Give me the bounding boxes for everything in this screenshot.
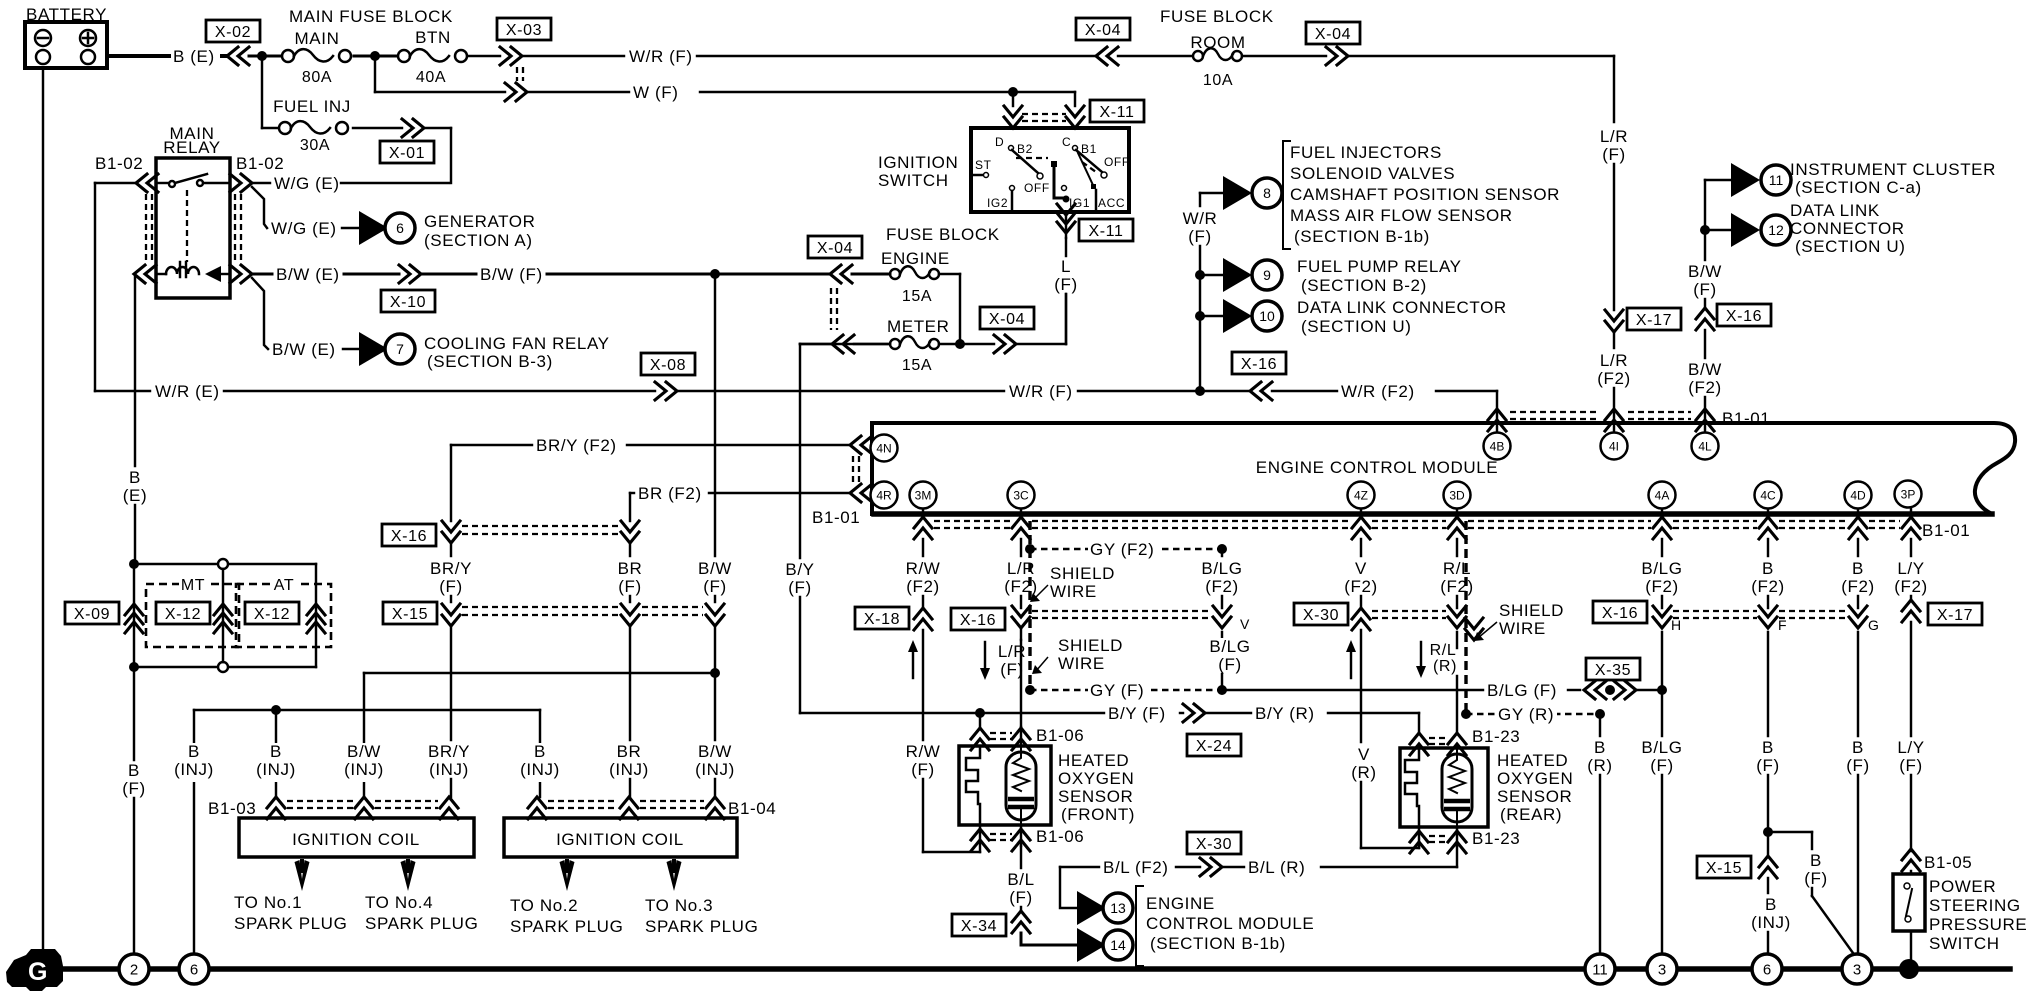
svg-text:X-30: X-30: [1303, 607, 1339, 624]
svg-text:CONNECTOR: CONNECTOR: [1790, 219, 1905, 238]
svg-text:WIRE: WIRE: [1050, 582, 1097, 601]
svg-text:B1-06: B1-06: [1036, 726, 1084, 745]
svg-text:AT: AT: [274, 577, 294, 594]
connector X-18 box: [855, 607, 909, 629]
wire to instrument cluster: [1705, 179, 1731, 181]
node junction W/R distribution: [1195, 386, 1205, 396]
wire GY (R) dashed: [1466, 705, 1597, 727]
shield wire rear: [1464, 521, 1467, 714]
label FUEL INJ: [273, 97, 351, 116]
connector X-09 box: [65, 602, 119, 624]
svg-text:SWITCH: SWITCH: [1929, 934, 2000, 953]
svg-text:B/W (E): B/W (E): [272, 340, 336, 359]
connector X-12 chevron MT: [214, 604, 232, 633]
svg-text:(SECTION B-3): (SECTION B-3): [427, 352, 553, 371]
wire B (INJ) coil1 drop: [275, 710, 277, 797]
node junction B/LG column: [1657, 685, 1667, 695]
node junction DLC branch: [1700, 225, 1710, 235]
connector B1-04 chevron 2: [620, 797, 638, 819]
connector X-16 dashed right: [1673, 611, 1847, 618]
svg-text:(F): (F): [1899, 756, 1923, 775]
ECM pin 4Z: [1348, 482, 1375, 509]
label SHIELD WIRE front lower: [1032, 636, 1123, 674]
ECM pin 4I: [1601, 433, 1628, 460]
svg-text:W/R (F2): W/R (F2): [1341, 382, 1415, 401]
label TO No.2 SPARK PLUG: [510, 896, 623, 936]
wire PS switch to bus: [1910, 931, 1912, 961]
wire B/W (E) to cooling fan relay: [252, 278, 359, 362]
svg-text:6: 6: [1763, 962, 1771, 979]
connector X-15 chevron right: [1759, 856, 1777, 878]
svg-text:W/R (F): W/R (F): [1009, 382, 1073, 401]
svg-text:D: D: [995, 135, 1004, 149]
svg-text:SWITCH: SWITCH: [878, 171, 949, 190]
coil T1 IGNITION COIL box: [239, 818, 474, 857]
wire BR (F2) horizontal: [630, 484, 850, 506]
svg-text:B: B: [1852, 738, 1864, 757]
svg-text:(INJ): (INJ): [344, 760, 384, 779]
svg-text:W/R (F): W/R (F): [629, 47, 693, 66]
wire W/G (E) to X-01: [252, 174, 449, 196]
connector X-18 chevron: [914, 608, 932, 630]
label INSTRUMENT CLUSTER: [1790, 160, 1996, 197]
wire BR column: [615, 493, 646, 797]
wire meter fuse to L(F): [939, 294, 1066, 344]
wire label B (INJ) coil1: [251, 742, 301, 782]
wire room fuse out: [1242, 55, 1326, 57]
connector B1-23 chevron bottom right: [1448, 827, 1466, 853]
svg-text:B/W (E): B/W (E): [276, 265, 340, 284]
svg-text:W/R: W/R: [1183, 209, 1218, 228]
spark plug arrow 1: [295, 859, 310, 891]
connector X-17 box: [1627, 308, 1681, 330]
off-page ref 9 FUEL PUMP RELAY: [1223, 258, 1282, 292]
label B1-23 bottom: [1472, 829, 1520, 848]
connector B1-03 chevron 2: [355, 797, 373, 819]
switch SW1 IGNITION SWITCH box: [971, 128, 1129, 212]
wire B/L (R) riser to rear sensor: [1456, 846, 1458, 867]
HO2S rear heater element: [1405, 750, 1419, 827]
svg-text:13: 13: [1110, 900, 1126, 916]
wire GY (F) dashed: [1030, 681, 1222, 703]
coil T2 IGNITION COIL box: [504, 818, 737, 857]
flow arrow down R/L: [1416, 642, 1426, 678]
svg-text:B: B: [1810, 851, 1822, 870]
wire L/R (F2): [999, 539, 1042, 608]
svg-text:4C: 4C: [1760, 489, 1776, 503]
wire B (F) 4C: [1753, 632, 1784, 832]
connector X-16 chevron BW: [1696, 308, 1714, 330]
svg-text:MT: MT: [181, 577, 205, 594]
wire B/W (F2): [1683, 330, 1726, 433]
label FUSE BLOCK room: [1160, 7, 1274, 26]
label COOLING FAN RELAY (SECTION B-3): [424, 334, 610, 371]
connector X-30 dashed: [1372, 611, 1446, 618]
connector B1-23 chevron top right: [1448, 733, 1466, 755]
connector B1-02 chevron coil right: [230, 265, 252, 283]
connector B1-01 chevron 4L: [1696, 409, 1714, 431]
label FUEL PUMP RELAY: [1297, 257, 1462, 295]
svg-text:B (E): B (E): [173, 47, 215, 66]
MT dashed box: [146, 577, 239, 647]
svg-text:3: 3: [1658, 962, 1666, 979]
svg-text:MAIN FUSE BLOCK: MAIN FUSE BLOCK: [289, 7, 453, 26]
svg-text:4B: 4B: [1490, 440, 1505, 454]
wire W (F) horizontal: [527, 83, 1013, 105]
svg-text:B/L (R): B/L (R): [1248, 858, 1305, 877]
svg-text:B1-01: B1-01: [1722, 409, 1770, 428]
svg-text:(REAR): (REAR): [1500, 805, 1562, 824]
spark plug arrow 4: [401, 859, 416, 891]
connector X-01 box: [380, 141, 434, 163]
ECM pin 3D: [1444, 482, 1471, 509]
svg-text:(INJ): (INJ): [1751, 913, 1791, 932]
connector B1-06 dashed bottom: [990, 834, 1012, 840]
label MAIN FUSE BLOCK: [289, 7, 453, 26]
connector X-11 box top: [1090, 100, 1144, 122]
svg-text:4R: 4R: [876, 489, 892, 503]
svg-text:3P: 3P: [1901, 488, 1916, 502]
ignition lever D-OFF: [1012, 150, 1050, 195]
svg-text:ENGINE: ENGINE: [1146, 894, 1215, 913]
svg-text:6: 6: [190, 962, 198, 979]
connector B1-01 chevron 4C: [1759, 509, 1777, 539]
svg-text:12: 12: [1768, 222, 1784, 238]
shield wire front: [1028, 521, 1031, 690]
svg-text:B: B: [188, 742, 200, 761]
wire B/Y (F) to X-24: [980, 704, 1183, 726]
label DATA LINK CONNECTOR 12: [1790, 201, 1905, 256]
wire to ref 8: [1200, 192, 1223, 194]
connector X-03 chevron W/R: [500, 47, 522, 65]
connector X-02 chevron: [227, 47, 249, 65]
connector X-04 box meter: [980, 307, 1034, 329]
wire meter fuse left to B/Y: [800, 343, 890, 345]
connector X-34 box: [952, 914, 1006, 936]
connector X-30 chevron BL: [1200, 858, 1222, 876]
wire L/R (F) lower: [1020, 630, 1022, 727]
wire to ref 10: [1200, 315, 1223, 317]
fuse BTN 40A: [398, 28, 467, 86]
connector B1-01 chevron 4D: [1849, 509, 1867, 539]
svg-text:(F): (F): [1054, 275, 1078, 294]
connector X-10 box: [381, 290, 435, 312]
label GENERATOR (SECTION A): [424, 212, 536, 250]
battery B1 label: [26, 5, 107, 24]
svg-text:BR (F2): BR (F2): [638, 484, 702, 503]
svg-text:WIRE: WIRE: [1499, 619, 1546, 638]
svg-text:4N: 4N: [876, 442, 891, 456]
wire W/R (F) vertical: [1182, 193, 1218, 391]
connector X-11 dashed: [1022, 114, 1066, 121]
label TO No.1 SPARK PLUG: [234, 893, 347, 933]
label HEATED OXYGEN SENSOR FRONT: [1058, 751, 1135, 824]
ignition ACC contact: [1078, 153, 1125, 210]
bracket ref 8: [1283, 141, 1290, 249]
svg-text:(F): (F): [703, 577, 727, 596]
svg-text:7: 7: [396, 341, 404, 357]
svg-text:X-11: X-11: [1099, 104, 1134, 121]
svg-text:METER: METER: [887, 317, 950, 336]
svg-text:V: V: [1358, 745, 1370, 764]
svg-text:B: B: [1762, 559, 1774, 578]
svg-text:X-15: X-15: [392, 606, 428, 623]
svg-text:(INJ): (INJ): [695, 760, 735, 779]
svg-text:(F): (F): [788, 578, 812, 597]
bracket ref 13-14: [1136, 886, 1143, 966]
svg-text:MAIN: MAIN: [295, 29, 340, 48]
node MT/AT bottom junction: [129, 662, 139, 672]
connector X-04 chevron room-right: [1326, 47, 1348, 65]
wire B/L (F2) horizontal: [1060, 858, 1200, 880]
wire label B (INJ) bus: [169, 742, 219, 782]
svg-text:DATA LINK CONNECTOR: DATA LINK CONNECTOR: [1297, 298, 1507, 317]
wire L/Y (F2): [1889, 539, 1932, 600]
flow arrow up V: [1346, 640, 1356, 678]
ignition lever C-OFF: [1076, 150, 1130, 178]
svg-text:X-01: X-01: [389, 145, 425, 162]
wire B/LG (F2) column: [1198, 549, 1247, 608]
svg-text:IG2: IG2: [987, 196, 1008, 210]
wire R/L (F2): [1435, 539, 1478, 608]
svg-text:4Z: 4Z: [1354, 489, 1368, 503]
wire B/W (F) to engine fuse: [421, 265, 830, 287]
wire B/L (F): [1003, 846, 1039, 911]
wire relay coil in box: [158, 273, 166, 275]
svg-text:L/R: L/R: [1600, 351, 1628, 370]
label B1-02 right: [236, 154, 284, 173]
wire L/R (F) vertical: [1596, 56, 1632, 310]
svg-text:B1: B1: [1081, 142, 1097, 156]
svg-text:(E): (E): [123, 486, 147, 505]
svg-text:4A: 4A: [1655, 489, 1670, 503]
ECM pin 4N: [871, 435, 898, 462]
label ROOM: [1190, 33, 1245, 52]
connector X-16 chevron on W/R: [1250, 382, 1272, 400]
wire relay switch in box: [158, 182, 228, 184]
wire B/LG (F) column: [1638, 632, 1687, 955]
svg-text:(INJ): (INJ): [609, 760, 649, 779]
label B1-06 top: [1036, 726, 1084, 745]
svg-text:IGNITION COIL: IGNITION COIL: [292, 830, 420, 849]
svg-text:FUEL PUMP RELAY: FUEL PUMP RELAY: [1297, 257, 1462, 276]
svg-text:OXYGEN: OXYGEN: [1497, 769, 1573, 788]
wire X-34 to ref 14: [1021, 933, 1077, 945]
off-page ref 8 FUEL INJECTORS: [1223, 176, 1282, 210]
svg-text:B/LG: B/LG: [1201, 559, 1242, 578]
MT/AT middle joint circles: [218, 559, 228, 672]
connector X-11 box bottom: [1079, 219, 1133, 241]
svg-text:MASS AIR FLOW SENSOR: MASS AIR FLOW SENSOR: [1290, 206, 1513, 225]
svg-text:HEATED: HEATED: [1058, 751, 1129, 770]
label B1-06 bottom: [1036, 827, 1084, 846]
wire B/Y (R) drop to rear sensor: [1418, 713, 1420, 733]
svg-text:X-16: X-16: [391, 528, 427, 545]
connector B1-02 chevron switch left: [136, 174, 158, 192]
svg-text:X-04: X-04: [989, 311, 1025, 328]
svg-text:10: 10: [1259, 308, 1275, 324]
ground node 11: [1585, 954, 1615, 984]
svg-text:(F): (F): [122, 779, 146, 798]
svg-text:11: 11: [1592, 962, 1608, 979]
wire battery positive B (E): [107, 54, 227, 58]
ECM pin 4C: [1755, 482, 1782, 509]
svg-text:B1-04: B1-04: [728, 799, 776, 818]
wire to room fuse: [1118, 55, 1193, 57]
connector B1-23 dashed top: [1429, 738, 1448, 744]
svg-text:SENSOR: SENSOR: [1058, 787, 1133, 806]
svg-text:GY (F2): GY (F2): [1090, 540, 1154, 559]
svg-text:(F2): (F2): [906, 577, 940, 596]
wire B (INJ) to coil 2: [539, 710, 541, 797]
connector X-16 dashed left: [462, 526, 618, 534]
wire B (F) vertical to ground bus: [119, 667, 150, 955]
node GY R to B R: [1595, 709, 1605, 719]
connector X-16 dashed front: [1032, 611, 1210, 618]
node junction front sensor heater: [975, 708, 985, 718]
svg-text:SHIELD: SHIELD: [1050, 564, 1115, 583]
connector X-16 chevron front: [1012, 606, 1030, 628]
svg-text:(INJ): (INJ): [429, 760, 469, 779]
svg-text:L: L: [1061, 257, 1071, 276]
svg-text:STEERING: STEERING: [1929, 896, 2021, 915]
svg-text:X-16: X-16: [1726, 308, 1762, 325]
connector X-04 box engine: [808, 236, 862, 258]
connector B1-01 dashed row: [934, 521, 1900, 528]
label B1-04: [728, 799, 776, 818]
svg-text:SOLENOID VALVES: SOLENOID VALVES: [1290, 164, 1455, 183]
wire W/R (F2) horizontal: [1272, 382, 1497, 404]
svg-text:TO No.4: TO No.4: [365, 893, 433, 912]
wire BR/Y (F2) horizontal: [451, 436, 850, 458]
connector B1-01 dashed pair left of ECM: [853, 456, 859, 482]
wire engine fuse jumper: [852, 274, 960, 344]
svg-text:R/W: R/W: [906, 559, 941, 578]
svg-text:X-30: X-30: [1196, 836, 1232, 853]
relay K1 MAIN RELAY box: [156, 158, 230, 298]
svg-text:(R): (R): [1351, 763, 1376, 782]
ground node 2: [119, 954, 149, 984]
svg-text:(SECTION U): (SECTION U): [1301, 317, 1411, 336]
svg-text:14: 14: [1110, 937, 1126, 953]
MT/AT connector block frame: [134, 564, 316, 667]
svg-text:W (F): W (F): [633, 83, 678, 102]
svg-text:BR/Y: BR/Y: [430, 559, 472, 578]
connector B1-01 chevron 4B: [1488, 409, 1506, 431]
wire to ref 9: [1200, 274, 1223, 276]
connector X-01 chevron: [402, 119, 424, 137]
wire label L/R (F): [994, 642, 1030, 682]
wire B/W tap horizontal: [364, 672, 713, 674]
connector B1-02 dashed left: [146, 194, 152, 262]
connector B1-02 chevron coil left: [134, 265, 156, 283]
svg-text:X-17: X-17: [1636, 312, 1672, 329]
ignition terminal IG2: [987, 186, 1015, 211]
svg-text:B1-05: B1-05: [1924, 853, 1972, 872]
ECM pin 3P: [1895, 481, 1922, 508]
wire B/LG (F) to column: [1636, 689, 1662, 691]
svg-text:B/Y (F): B/Y (F): [1108, 704, 1166, 723]
wire ground circle-6 riser: [194, 710, 540, 955]
ignition terminal D: [995, 135, 1033, 156]
svg-text:B: B: [1762, 738, 1774, 757]
wire V (F2): [1339, 539, 1382, 608]
svg-text:B/LG: B/LG: [1641, 559, 1682, 578]
wire BR/Y column: [450, 445, 452, 556]
wire W (F) branch from fuse block: [375, 56, 505, 92]
wire label R/L (R): [1426, 642, 1460, 678]
ground node 6 right: [1752, 954, 1782, 984]
label B1-02 left: [95, 154, 143, 173]
svg-text:(F): (F): [911, 760, 935, 779]
svg-text:SENSOR: SENSOR: [1497, 787, 1572, 806]
svg-text:(F): (F): [1756, 756, 1780, 775]
connector X-08 chevron: [655, 382, 677, 400]
ECM pin 4D: [1845, 482, 1872, 509]
node junction on B/W column: [710, 668, 720, 678]
off-page ref 7 COOLING FAN RELAY: [359, 332, 415, 366]
ECM pin 4R: [871, 482, 898, 509]
node MT/AT top junction: [129, 559, 139, 569]
svg-text:(SECTION U): (SECTION U): [1795, 237, 1905, 256]
label SHIELD WIRE front upper: [1030, 564, 1115, 602]
label IGNITION SWITCH: [878, 153, 958, 190]
svg-text:(F): (F): [1009, 888, 1033, 907]
svg-text:W/R (E): W/R (E): [155, 382, 220, 401]
svg-text:B/W: B/W: [1688, 360, 1722, 379]
svg-text:TO No.3: TO No.3: [645, 896, 713, 915]
svg-text:30A: 30A: [300, 137, 330, 154]
connector X-03 dashes: [517, 67, 523, 81]
node junction ref 9: [1195, 270, 1205, 280]
off-page ref 6 GENERATOR: [359, 211, 415, 245]
node junction ignition feed: [1008, 87, 1018, 97]
connector X-17 box right: [1928, 603, 1982, 625]
connector B1-04 dashed: [548, 801, 704, 808]
wire B/LG (F) horizontal: [1222, 681, 1580, 703]
wire R/W (F): [905, 630, 980, 852]
HO2S front heater element: [966, 748, 980, 825]
svg-text:(SECTION B-2): (SECTION B-2): [1301, 276, 1427, 295]
label B1-01 below ECM: [1922, 521, 1970, 540]
svg-text:X-03: X-03: [506, 22, 542, 39]
wire B/L (R): [1222, 858, 1457, 880]
flow arrow down L/R: [980, 642, 990, 680]
connector ECM 4R chevron: [850, 484, 872, 502]
wire label BR/Y (INJ): [424, 742, 474, 782]
svg-text:X-18: X-18: [864, 611, 900, 628]
svg-text:(F2): (F2): [1894, 577, 1928, 596]
svg-text:X-16: X-16: [1602, 605, 1638, 622]
relay switch contact: [169, 174, 207, 187]
svg-text:(SECTION A): (SECTION A): [424, 231, 533, 250]
connector X-30 box lower: [1187, 832, 1241, 854]
svg-text:ROOM: ROOM: [1190, 33, 1245, 52]
svg-text:40A: 40A: [416, 69, 446, 86]
connector X-02 box: [206, 20, 260, 42]
connector X-16 chevron BR/Y: [442, 521, 460, 543]
svg-text:(F): (F): [439, 577, 463, 596]
node shield GY R tap: [1461, 709, 1471, 719]
svg-text:BR/Y: BR/Y: [428, 742, 470, 761]
svg-text:(INJ): (INJ): [520, 760, 560, 779]
svg-text:X-12: X-12: [254, 606, 290, 623]
svg-text:DATA LINK: DATA LINK: [1790, 201, 1880, 220]
HO2S front sensor element: [1006, 746, 1036, 825]
svg-text:X-10: X-10: [390, 294, 426, 311]
label ENGINE: [881, 249, 950, 268]
svg-text:W/G (E): W/G (E): [274, 174, 340, 193]
